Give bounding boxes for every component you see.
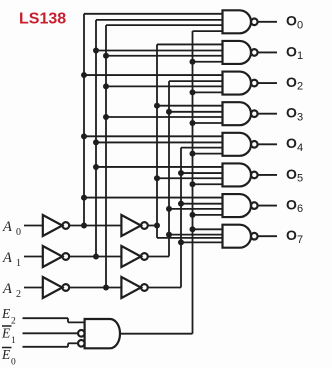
wire E2 lead with jog — [23, 317, 69, 319]
svg-text:E: E — [1, 326, 11, 341]
junction dots on A2-complement bus — [103, 53, 109, 59]
wire bus A0-complement vertical x=84 — [83, 14, 85, 226]
inverter U1A (A0 first inverter) — [43, 215, 63, 236]
svg-text:2: 2 — [11, 317, 16, 327]
wires NAND gate 0 input stubs — [84, 13, 223, 15]
inverter U2B (A1 second inverter) — [121, 246, 140, 267]
node A0' bus tap junction — [81, 223, 87, 229]
svg-text:E: E — [1, 347, 11, 362]
svg-text:O: O — [286, 43, 297, 59]
svg-text:0: 0 — [11, 358, 16, 368]
wire enable gate output to E bus corner — [120, 333, 193, 335]
wire bus E enable vertical x=192.5 — [192, 31, 194, 334]
svg-text:2: 2 — [16, 289, 21, 300]
and-gate U7 enable gate — [85, 319, 120, 348]
svg-text:1: 1 — [11, 336, 16, 346]
wire bus A1-true vertical x=169 — [168, 81, 170, 256]
node A2' bus tap junction — [103, 285, 109, 291]
svg-text:4: 4 — [297, 142, 303, 154]
svg-text:O: O — [286, 13, 297, 29]
svg-text:5: 5 — [297, 173, 303, 185]
svg-text:0: 0 — [297, 19, 303, 31]
wires NAND gate 5 input stubs — [96, 166, 223, 168]
node A0 true bus T-junction — [154, 223, 160, 229]
svg-text:3: 3 — [297, 111, 303, 123]
wires NAND gate 1 input stubs — [157, 43, 223, 45]
wire bus A2-complement vertical x=106 — [105, 25, 107, 287]
wires NAND gate 7 input stubs — [193, 228, 223, 230]
wires NAND gate 6 input stubs — [84, 197, 223, 199]
svg-text:O: O — [286, 105, 297, 121]
inverter U1B (A0 second inverter) — [121, 215, 140, 236]
nand-gate G5 — [223, 163, 252, 186]
nand-gate G7 — [223, 225, 252, 248]
svg-text:7: 7 — [297, 234, 303, 246]
nand-gate G1 — [223, 41, 252, 64]
wire output O2 — [258, 82, 277, 84]
inverter U3B (A2 second inverter) — [121, 277, 140, 298]
wire A2 lead — [24, 287, 43, 289]
svg-text:0: 0 — [16, 227, 21, 238]
nand-gate G4 — [223, 133, 252, 156]
wire bus A1-complement vertical x=96 — [95, 20, 97, 257]
svg-text:E: E — [1, 306, 11, 321]
junction dots on A0-complement bus — [81, 72, 87, 78]
inverter U2A (A1 first inverter) — [43, 246, 63, 267]
junction dots on A2-true bus — [178, 170, 184, 176]
junction dots on E bus — [190, 59, 196, 65]
svg-text:6: 6 — [297, 203, 303, 215]
svg-text:1: 1 — [16, 258, 21, 269]
svg-text:A: A — [2, 250, 12, 266]
wire E0 lead with jog — [23, 346, 69, 348]
svg-text:O: O — [286, 196, 297, 212]
nand-gate G0 — [223, 10, 251, 33]
nand-gate G6 — [223, 194, 252, 217]
wire A0 lead — [24, 225, 43, 227]
wire A1 lead — [24, 256, 43, 258]
svg-text:LS138: LS138 — [19, 10, 66, 27]
wire A2 true from second inverter to bus — [148, 287, 181, 289]
wire output O5 — [258, 174, 277, 176]
svg-text:A: A — [2, 281, 12, 297]
wire A0' from first inverter to second inverter — [69, 225, 121, 227]
enable label E0-bar (active low) — [2, 347, 12, 349]
svg-text:O: O — [286, 166, 297, 182]
wire output O1 — [258, 51, 277, 53]
wire output O3 — [258, 113, 277, 115]
wire output O7 — [258, 235, 277, 237]
svg-text:2: 2 — [297, 81, 303, 93]
wire output O0 — [258, 21, 277, 23]
wire A0 true from second inverter to bus — [148, 225, 157, 227]
svg-text:O: O — [286, 135, 297, 151]
wires NAND gate 3 input stubs — [157, 105, 223, 107]
inverter U3A (A2 first inverter) — [43, 277, 63, 298]
wire output O6 — [258, 205, 277, 207]
wire bus A2-true vertical x=181 — [180, 148, 182, 288]
svg-text:O: O — [286, 74, 297, 90]
junction dots on A1-true bus — [166, 109, 172, 115]
svg-text:O: O — [286, 227, 297, 243]
wire A2' from first inverter to second inverter — [69, 287, 121, 289]
wire A1 true from second inverter to bus — [148, 256, 169, 258]
wires NAND gate 2 input stubs — [84, 74, 223, 76]
wire A1' from first inverter to second inverter — [69, 256, 121, 258]
node A1' bus tap junction — [93, 254, 99, 260]
wire bus A0-true vertical x=157 — [156, 44, 158, 237]
wire output O4 — [258, 143, 277, 145]
enable label E1-bar (active low) — [2, 325, 12, 327]
svg-text:A: A — [2, 219, 12, 235]
junction dots on A0-true bus — [154, 103, 160, 109]
svg-text:1: 1 — [297, 50, 303, 62]
wire E1 lead — [23, 332, 79, 334]
wires NAND gate 4 input stubs — [84, 135, 223, 137]
junction dots on A1-complement bus — [93, 48, 99, 54]
nand-gate G2 — [223, 72, 252, 95]
nand-gate G3 — [223, 102, 252, 125]
